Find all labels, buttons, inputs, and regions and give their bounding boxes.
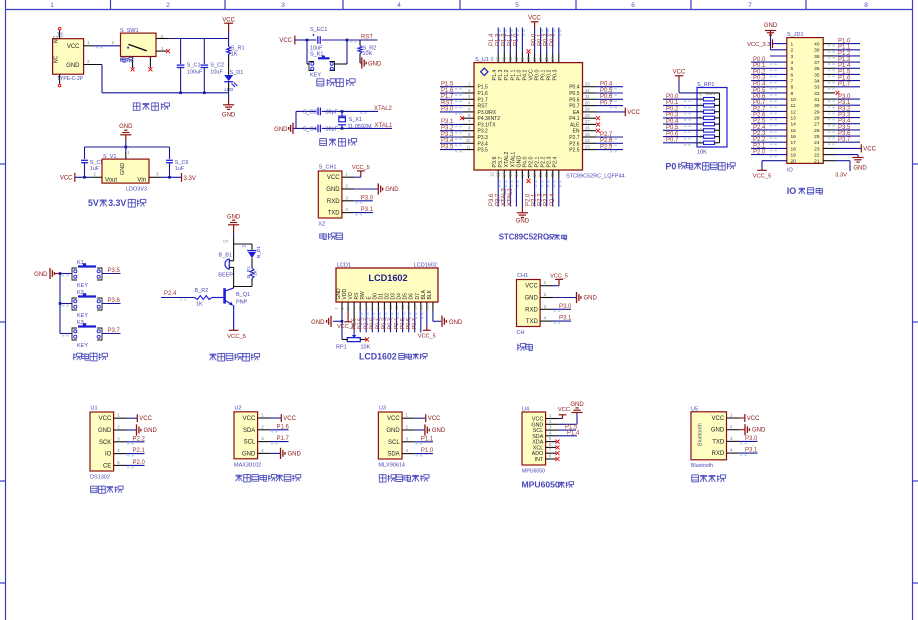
svg-text:P0.2: P0.2 [753,69,766,75]
svg-text:P3.6: P3.6 [838,131,851,137]
resistor R1 1K [227,39,245,75]
ground GND reset [360,53,382,68]
svg-text:P2.6: P2.6 [600,138,613,144]
pin 25 P2.7 [583,132,624,140]
svg-text:CH1: CH1 [517,273,528,279]
svg-text:33: 33 [585,82,590,87]
svg-text:P3.0: P3.0 [838,94,851,100]
LED D1 alarm [241,245,261,268]
wire MPU6050 SCL P1.5 [546,425,578,431]
svg-text:34: 34 [550,56,555,61]
svg-text:VCC: VCC [67,44,80,50]
svg-text:GND: GND [66,63,80,69]
svg-text:Vin: Vin [137,178,146,184]
caption IO expansion [787,186,823,196]
svg-text:GND: GND [227,214,241,220]
svg-text:GND: GND [242,451,256,457]
pin 8 MPU6050 INT NC [546,454,560,461]
wire io right pin23 [823,144,876,152]
pin 42 top P1.2 [501,28,513,63]
svg-text:3.3V: 3.3V [108,198,126,208]
connector JD1 body [787,32,823,174]
pin 18 bottom P2.0 [526,170,538,207]
caption crystal circuit [320,138,357,146]
svg-text:P1.5: P1.5 [838,69,851,75]
svg-text:P4.3/INT2: P4.3/INT2 [478,116,501,122]
svg-text:GND: GND [288,451,302,457]
svg-text:5: 5 [791,66,794,72]
svg-text:3.3V: 3.3V [835,173,847,179]
svg-text:GND: GND [516,156,522,168]
svg-text:P1.7: P1.7 [478,97,489,103]
svg-text:P1.7: P1.7 [441,94,454,100]
svg-text:P1.0: P1.0 [513,33,519,46]
pin 3 P1.7 [440,94,474,102]
svg-text:P0.6: P0.6 [600,94,613,100]
pin 22 bottom P2.4 [550,170,562,207]
svg-text:P2.2: P2.2 [133,436,146,442]
svg-text:42: 42 [502,56,507,61]
svg-text:9: 9 [791,91,794,97]
svg-text:B_B1: B_B1 [219,252,232,258]
svg-text:EA: EA [573,110,580,116]
wire LCD D1 net P0.1 [376,311,387,333]
svg-text:GND: GND [764,23,778,29]
svg-text:P0.3: P0.3 [553,70,559,81]
LCD pin names [336,288,433,300]
svg-text:RW: RW [360,291,366,300]
svg-text:7: 7 [748,2,752,9]
wire io left pin15 P2.4 [751,125,787,133]
svg-text:16: 16 [791,134,797,140]
svg-text:38: 38 [814,54,820,60]
svg-text:2: 2 [166,2,170,9]
svg-text:13: 13 [496,172,501,177]
svg-text:VCC: VCC [712,416,725,422]
svg-text:38: 38 [526,56,531,61]
svg-text:LCD1602: LCD1602 [359,351,397,361]
svg-text:20: 20 [538,172,543,177]
pin 1 U2 VCC -> VCC [258,413,297,423]
svg-text:P2.5: P2.5 [600,144,613,150]
svg-text:37: 37 [532,56,537,61]
chip left pin names [478,85,501,154]
svg-text:P0: P0 [665,161,676,171]
svg-text:P1.2: P1.2 [504,70,510,81]
connector T1 (TYPE-C-2P) [53,27,84,86]
svg-text:MLX90614: MLX90614 [378,463,405,469]
wire LCD D5 net P0.5 [400,311,411,333]
resistor B_R2 1K base [161,288,223,307]
svg-text:23: 23 [585,144,590,149]
svg-text:15: 15 [508,172,513,177]
svg-text:P2.7: P2.7 [753,106,766,112]
capacitor C3 30pF [303,108,339,116]
svg-text:34: 34 [814,79,820,85]
svg-text:Vout: Vout [105,178,117,184]
svg-text:VCC: VCC [863,146,876,152]
svg-text:S_X1: S_X1 [349,117,362,123]
svg-text:12: 12 [400,304,405,309]
svg-text:35: 35 [814,72,820,78]
wire io left pin12 P2.7 [751,106,787,114]
svg-text:P3.3: P3.3 [838,113,851,119]
pin 4 S_CH1 TXD -> P3.1 [342,207,374,215]
wire LCD D7 net P0.7 [412,311,423,333]
pin 3 U1 SCK -> P2.2 [114,436,146,444]
svg-text:5V: 5V [88,198,99,208]
svg-text:P1.4: P1.4 [567,430,580,436]
svg-text:P2.7: P2.7 [569,135,580,141]
pin 2 U2 SDA -> P1.6 [258,424,290,432]
svg-text:LED: LED [225,87,235,92]
svg-text:29: 29 [585,107,590,112]
svg-text:GND: GND [34,272,48,278]
pin 41 top P1.1 [507,28,519,63]
module U1 DS1302 body [90,406,114,481]
svg-text:33: 33 [814,85,820,91]
pin 19 bottom P2.1 [532,170,544,207]
power VCC_3.3 io [747,39,787,48]
svg-text:TXD: TXD [712,439,725,445]
svg-text:P2.1: P2.1 [532,193,538,206]
svg-text:S_CH1: S_CH1 [319,165,337,171]
wire io right pin38 [823,51,860,59]
pin 14 bottom XTAL2 [501,170,513,207]
pin 13 bottom P3.7 [495,170,507,207]
resistor B_R1 1K [234,266,259,287]
svg-text:XTAL1: XTAL1 [375,123,394,129]
svg-text:3: 3 [281,2,285,9]
svg-text:RST: RST [441,100,453,106]
svg-text:10K: 10K [697,150,707,156]
caption heart-rate module [236,474,301,482]
switch K3 [60,320,121,349]
svg-text:RP1: RP1 [336,345,347,351]
svg-text:14: 14 [412,304,417,309]
svg-text:D4: D4 [397,293,403,300]
pin 1 S_CH1 VCC -> VCC_5T [342,165,370,177]
module CH1 CH body [517,273,541,336]
wire io right pin40 [823,39,860,47]
svg-text:10: 10 [791,97,797,103]
svg-text:P0.0: P0.0 [535,70,541,81]
svg-text:GND: GND [311,320,325,326]
svg-text:P1.5: P1.5 [441,82,454,88]
resistor network RP1 10K [697,82,727,156]
svg-text:P3.6: P3.6 [489,193,495,206]
svg-text:P1.7: P1.7 [838,82,851,88]
svg-text:19: 19 [532,172,537,177]
svg-text:VCC: VCC [673,70,686,76]
svg-text:TYPE-C-2P: TYPE-C-2P [57,76,84,82]
svg-text:4: 4 [397,2,401,9]
pin 37 top P0.0 [532,28,544,63]
svg-text:P2.0: P2.0 [133,460,146,466]
svg-text:P0.7: P0.7 [600,100,613,106]
svg-text:32: 32 [814,91,820,97]
wire ldo top rail [85,146,170,159]
pin 38 top VCC [526,15,541,62]
wire io right pin31 [823,94,860,102]
capacitor C4 30pF [303,125,339,133]
power VCC_5 LCD BLA [418,311,436,340]
svg-text:18: 18 [526,172,531,177]
svg-text:P3.0: P3.0 [745,436,758,442]
svg-text:13: 13 [791,116,797,122]
svg-text:P0.4: P0.4 [666,119,679,125]
svg-text:P2.3: P2.3 [753,131,766,137]
svg-text:P4.2: P4.2 [522,70,528,81]
svg-text:P0.6: P0.6 [666,131,679,137]
svg-text:P3.0: P3.0 [441,107,454,113]
pin 32 P0.5 [583,88,624,96]
svg-text:28: 28 [585,113,590,118]
svg-text:10: 10 [388,304,393,309]
caption IR temp module [379,474,429,482]
svg-text:GND: GND [368,61,382,67]
svg-text:GND: GND [385,187,399,193]
svg-text:RXD: RXD [712,451,725,457]
svg-text:16: 16 [424,304,429,309]
wire keys bus [59,272,62,333]
caption main chip [499,233,567,242]
pin 4 U2 GND -> GND [258,448,302,459]
svg-text:GND: GND [449,320,463,326]
svg-text:P3.3: P3.3 [441,132,454,138]
svg-text:STC89C52RC: STC89C52RC [499,233,549,242]
wire alarm branches [223,240,252,259]
svg-text:IO: IO [105,452,112,458]
svg-text:GND: GND [144,428,158,434]
capacitor C2 10uF [201,63,225,93]
svg-text:P3.7: P3.7 [108,328,121,334]
svg-text:31: 31 [814,97,820,103]
svg-text:12: 12 [791,109,797,115]
svg-text:KEY: KEY [310,73,321,79]
caption keys circuit [73,353,107,361]
svg-text:8: 8 [791,85,794,91]
caption MPU6050 module [522,480,574,490]
wire LCD RW net P2.6 [357,311,368,333]
module U4 MPU6050 body [522,407,546,475]
svg-text:VCC_5: VCC_5 [352,165,370,171]
pin 5 P3.0/RX [440,107,474,115]
svg-text:17: 17 [520,172,525,177]
svg-text:P3.1: P3.1 [441,119,454,125]
svg-text:GND: GND [432,428,446,434]
svg-text:100uF: 100uF [187,69,203,75]
wire P0.7 pullup [663,138,697,146]
svg-text:K3: K3 [77,320,84,326]
wire io right pin35 [823,69,860,77]
svg-text:KEY: KEY [77,283,88,289]
svg-text:SCL: SCL [388,440,400,446]
svg-text:30: 30 [814,103,820,109]
module S_CH1 XZ body [318,165,342,228]
wire io right pin26 [823,125,860,133]
svg-text:12: 12 [490,172,495,177]
svg-text:SDA: SDA [243,428,255,434]
ground GND power circuit [222,93,236,119]
svg-text:P1.5: P1.5 [478,85,489,91]
wire io pin3 stub [770,55,787,57]
wire LCD D4 net P0.4 [394,311,405,333]
module U3 MLX90614 body [378,406,405,469]
svg-text:P0.6: P0.6 [569,97,580,103]
pin 9 P3.3 [440,132,474,140]
svg-text:P1.0: P1.0 [421,448,434,454]
wire LCD VO to RP1 [353,311,355,332]
svg-text:XTAL2: XTAL2 [374,106,393,112]
svg-text:LDO3V3: LDO3V3 [126,186,147,192]
svg-text:GND: GND [853,166,867,172]
wire io right pin37 [823,57,860,65]
power VCC ldo input [60,172,102,182]
pin 1 CH1 VCC -> VCC_5T [540,274,568,286]
svg-text:7: 7 [791,79,794,85]
capacitor C1 100uF [177,63,203,93]
potentiometer RP1 10K [336,332,371,351]
wire P0.5 pullup [663,125,697,133]
pin 7 P3.1/TX [440,119,474,127]
svg-text:Bluetooth: Bluetooth [691,463,713,469]
wire io left pin13 P2.6 [751,113,787,121]
wire io left pin10 P0.6 [751,94,787,102]
wire io left pin7 P0.3 [751,76,787,84]
svg-text:P1.0: P1.0 [838,39,851,45]
svg-text:P0.2: P0.2 [666,107,679,113]
pin 12 bottom P3.6 [489,170,501,207]
wire P0.4 pullup [663,119,697,127]
svg-text:ALE: ALE [570,122,580,128]
svg-text:S_C1: S_C1 [187,63,201,69]
svg-text:P0.7: P0.7 [666,138,679,144]
svg-text:VCC: VCC [327,175,340,181]
svg-text:30pF: 30pF [326,110,339,116]
svg-text:VCC: VCC [525,284,538,290]
power VCC [222,18,235,39]
svg-text:6: 6 [791,72,794,78]
svg-text:11: 11 [791,103,796,109]
svg-text:P2.1: P2.1 [133,448,146,454]
svg-text:P3.5: P3.5 [838,125,851,131]
svg-text:GND: GND [752,428,766,434]
wire LCD RS net P2.5 [351,311,362,333]
svg-text:GND: GND [336,288,342,300]
svg-text:RST: RST [478,104,488,110]
wire io left pin9 P0.5 [751,88,787,96]
svg-text:P0.3: P0.3 [666,113,679,119]
svg-text:P2.1: P2.1 [535,157,541,168]
svg-text:1: 1 [50,2,54,9]
svg-text:RST: RST [361,34,373,40]
module U5 Bluetooth body [691,406,727,469]
wire io right pin27 [823,119,860,127]
capacitor C5 1uF [81,160,103,178]
svg-text:1K: 1K [231,51,238,57]
svg-text:21: 21 [814,159,820,165]
svg-text:P2.2: P2.2 [753,137,766,143]
svg-text:BEEP: BEEP [218,273,233,279]
wire P0.6 pullup [663,131,697,139]
pin 28 P4.1 [583,113,601,120]
pin 1 U3 VCC -> VCC [402,413,441,423]
svg-text:1K: 1K [253,269,259,276]
svg-text:11: 11 [466,144,471,149]
wire io right pin39 [823,45,860,53]
resistor R2 10K [358,40,376,57]
svg-text:P3.6: P3.6 [492,157,498,168]
svg-text:P4.0: P4.0 [522,157,528,168]
svg-text:11.0592M: 11.0592M [348,124,372,130]
svg-text:PNP: PNP [236,300,248,306]
svg-text:30: 30 [585,100,590,105]
svg-text:P1.6: P1.6 [277,424,290,430]
capacitor C6 1uF [166,160,188,178]
svg-text:P2.4: P2.4 [553,157,559,168]
svg-text:GND: GND [386,428,400,434]
svg-text:BLK: BLK [427,289,433,299]
svg-text:36: 36 [538,56,543,61]
svg-text:TXD: TXD [328,211,341,217]
ground GND io top [764,23,787,50]
svg-text:27: 27 [814,122,820,128]
svg-text:P2.1: P2.1 [753,143,766,149]
svg-text:26: 26 [585,126,590,131]
svg-text:S_K1: S_K1 [310,52,323,58]
pin 1 P1.5 [440,82,474,90]
wire io right pin21 [823,161,850,179]
wire LCD GND pin1 [311,311,343,340]
wire io right pin33 [823,82,860,90]
wire io right pin24 [823,137,860,145]
switch K2 [60,290,121,319]
svg-text:18: 18 [791,146,797,152]
svg-text:10uF: 10uF [310,46,323,52]
svg-text:P1.6: P1.6 [838,76,851,82]
buzzer B1 BEEP [218,252,233,286]
svg-text:P0.5: P0.5 [600,88,613,94]
wire io right pin22 [823,155,867,172]
svg-text:GND: GND [119,124,133,130]
svg-text:P3.4: P3.4 [441,138,454,144]
pin 17 bottom P4.0 [520,170,531,183]
svg-text:VCC: VCC [60,176,73,182]
svg-text:P0.3: P0.3 [550,33,556,46]
svg-text:P2.7: P2.7 [600,132,613,138]
svg-text:D3: D3 [391,293,397,300]
caption 5V to 3.3V circuit [88,198,146,208]
wire io right pin36 [823,63,860,71]
pin 4 CH1 TXD -> P3.1 [540,316,572,324]
svg-text:P3.2: P3.2 [441,126,454,132]
wire io left pin5 P0.1 [751,63,787,71]
wire LCD E net P2.7 [364,311,375,333]
pin 40 top P1.0 [513,28,525,63]
wire LCD D6 net P0.6 [406,311,417,333]
svg-text:P2.4: P2.4 [164,291,177,297]
pin 4 bluetooth -> P3.1 [727,448,759,456]
svg-text:BLA: BLA [421,289,427,299]
svg-text:P1.1: P1.1 [421,436,434,442]
svg-text:P1.6: P1.6 [441,88,454,94]
chip bottom pin names [492,152,559,168]
power VCC MPU6050 [546,407,571,419]
pin 27 ALE [583,119,601,126]
svg-text:P3.1: P3.1 [745,448,758,454]
svg-text:GND: GND [326,187,340,193]
